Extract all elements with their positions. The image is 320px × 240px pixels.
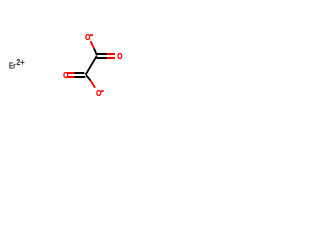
double bond C1=O2 line b red part [107, 57, 115, 59]
svg-text:Er: Er [9, 60, 16, 70]
svg-text:O: O [117, 51, 123, 61]
double bond C2=O3 line a red part [67, 72, 74, 74]
bond C2-O4 (black half) [86, 75, 90, 80]
bond O1-C1 (black half) [94, 48, 97, 55]
double bond C1=O2 line a black part [96, 53, 107, 55]
double bond C1=O2 line b black part [96, 57, 107, 59]
bond C1-C2 [86, 56, 97, 75]
svg-text:2+: 2+ [16, 58, 24, 67]
bond C2-O4 (red half) [91, 81, 96, 88]
double bond C2=O3 line b red part [67, 76, 74, 78]
charge minus on O1 [90, 34, 93, 36]
svg-text:O: O [96, 88, 102, 98]
double bond C2=O3 line a black part [74, 72, 84, 74]
svg-text:O: O [63, 70, 69, 80]
svg-text:O: O [85, 32, 91, 42]
charge minus on O4 [101, 90, 104, 92]
double bond C1=O2 line a red part [107, 53, 115, 55]
bond O1-C1 (red half) [91, 41, 95, 48]
double bond C2=O3 line b black part [74, 76, 85, 78]
cation Er2+ [9, 58, 25, 70]
